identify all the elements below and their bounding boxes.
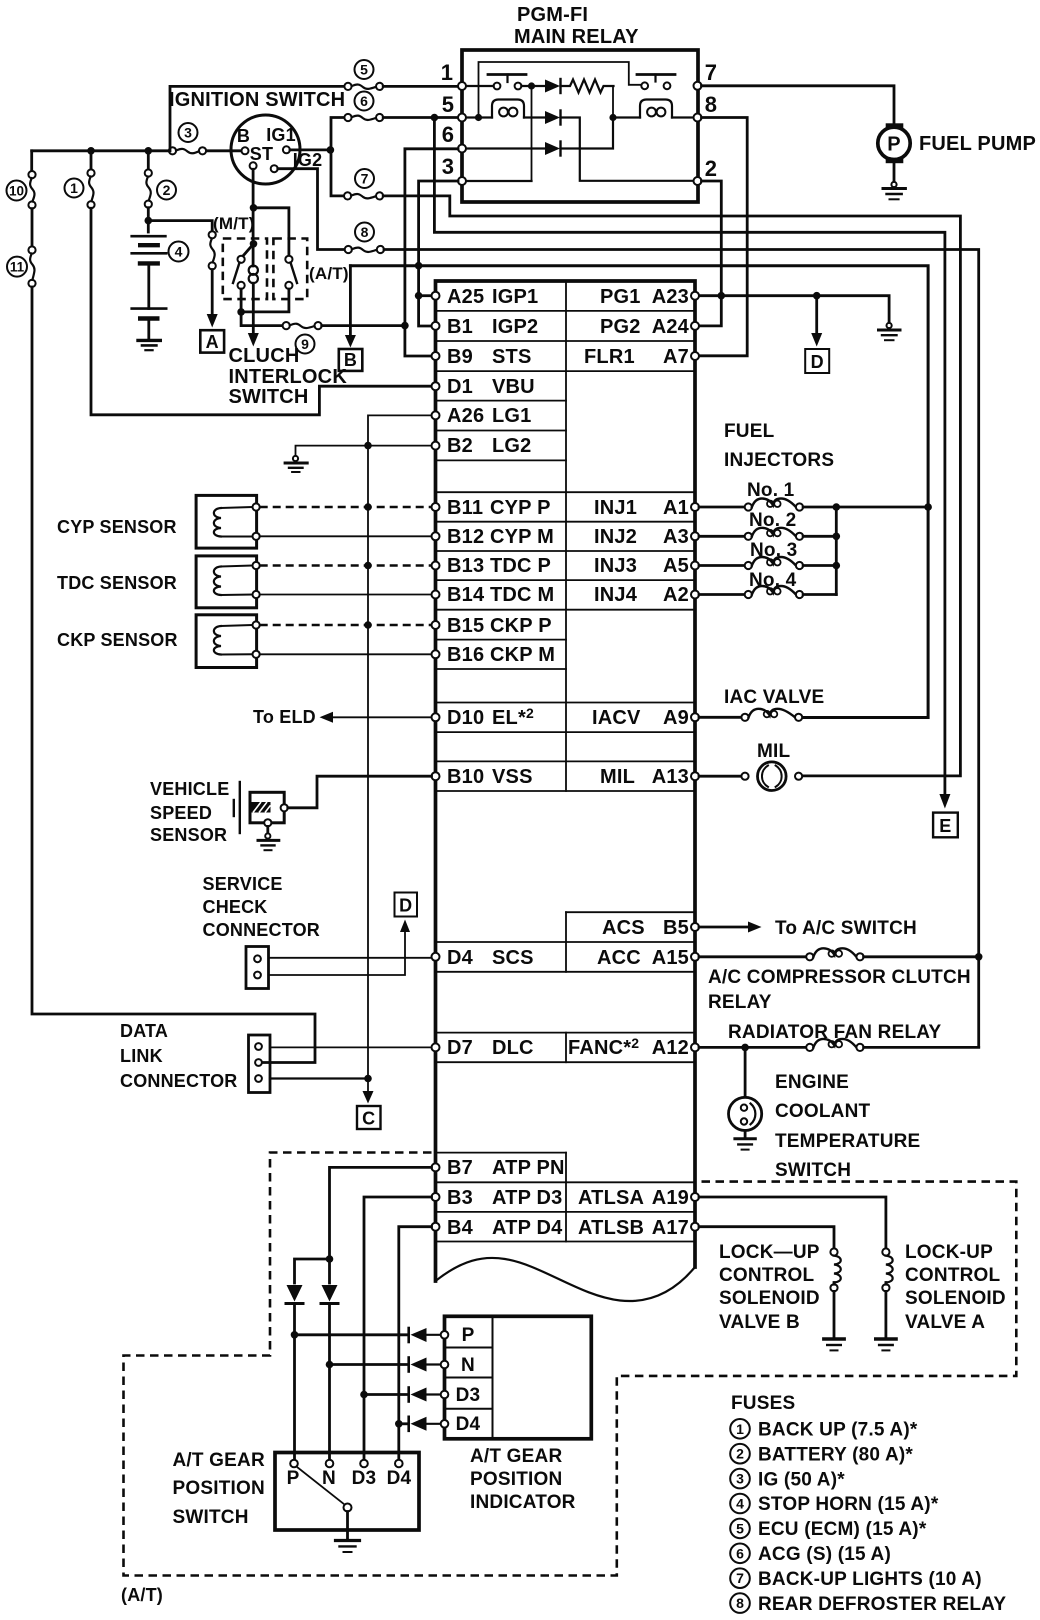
svg-text:7: 7 xyxy=(705,60,717,85)
wire LG line arrow into box C xyxy=(367,1079,369,1093)
svg-text:ATLSA: ATLSA xyxy=(578,1187,644,1209)
pin A25 terminal xyxy=(432,292,440,300)
svg-text:BACK UP (7.5 A)*: BACK UP (7.5 A)* xyxy=(758,1420,918,1441)
svg-text:INJ2: INJ2 xyxy=(594,526,637,548)
ECU wavy break line at bottom xyxy=(436,1258,696,1301)
svg-text:A7: A7 xyxy=(663,346,689,368)
dashed A/T section boundary left xyxy=(124,1153,1017,1576)
pin A12 terminal xyxy=(691,1043,699,1051)
svg-text:6: 6 xyxy=(442,122,454,147)
wire pin7 to fuel pump xyxy=(702,86,895,124)
svg-text:8: 8 xyxy=(736,1595,744,1611)
svg-text:VEHICLE: VEHICLE xyxy=(150,779,229,799)
svg-text:LINK: LINK xyxy=(120,1046,163,1066)
svg-text:INJ4: INJ4 xyxy=(594,584,638,606)
svg-text:D3: D3 xyxy=(456,1385,481,1406)
ground solenoid B xyxy=(824,1339,844,1350)
arrow down end of ST line xyxy=(248,333,259,347)
label circled 9 xyxy=(296,335,315,354)
pin A17 terminal xyxy=(691,1223,699,1231)
wire to indicator P diode xyxy=(295,1333,408,1336)
node junction dot indicator P row xyxy=(291,1331,299,1339)
svg-text:FANC*2: FANC*2 xyxy=(568,1035,639,1059)
svg-text:A24: A24 xyxy=(652,316,690,338)
svg-text:RELAY: RELAY xyxy=(708,992,772,1013)
pin A13 terminal xyxy=(691,772,699,780)
svg-text:8: 8 xyxy=(361,224,369,240)
arrow into box B xyxy=(345,335,356,348)
SEC-RIGHT2 xyxy=(121,1153,1016,1606)
arrow into box C xyxy=(363,1091,374,1104)
label circled 3 xyxy=(179,123,198,142)
pin B1 terminal xyxy=(432,322,440,330)
wire branch to A25 xyxy=(419,294,432,297)
wire CKP P shielded (dashed) to B15 xyxy=(260,624,432,627)
svg-text:INDICATOR: INDICATOR xyxy=(470,1492,576,1513)
svg-text:B12: B12 xyxy=(447,526,484,548)
label fuse 8 legend xyxy=(730,1593,1006,1615)
svg-text:CLUCH: CLUCH xyxy=(229,345,300,367)
svg-text:ST: ST xyxy=(250,144,273,164)
wire D-marker drop with arrow xyxy=(815,296,818,334)
svg-text:P: P xyxy=(887,134,901,156)
svg-text:1: 1 xyxy=(70,180,78,196)
svg-text:CYP M: CYP M xyxy=(490,526,554,548)
svg-text:N: N xyxy=(461,1355,475,1376)
relay contact K1 xyxy=(488,75,526,90)
svg-text:D10: D10 xyxy=(447,707,484,729)
wire diode CR2 to pin2 xyxy=(561,118,694,181)
ECU ACS row top line right column xyxy=(566,911,695,913)
A/T gear position switch body xyxy=(275,1453,419,1531)
svg-text:TDC P: TDC P xyxy=(490,555,551,577)
wire TDC P shielded (dashed) to B13 xyxy=(260,564,432,567)
svg-text:A1: A1 xyxy=(663,497,689,519)
svg-text:VALVE A: VALVE A xyxy=(905,1312,985,1333)
wire coolant switch drop xyxy=(744,1047,747,1097)
switch terminal P xyxy=(290,1460,298,1468)
SEC-MIDLEFT2 xyxy=(699,421,1006,1350)
svg-text:FUEL PUMP: FUEL PUMP xyxy=(919,133,1036,155)
svg-text:ATLSB: ATLSB xyxy=(578,1217,644,1239)
svg-text:ACS: ACS xyxy=(602,917,645,939)
wire fan relay to fuse8 bus corner xyxy=(864,1046,979,1049)
node junction dot indicator N row xyxy=(326,1361,334,1369)
svg-text:(A/T): (A/T) xyxy=(309,264,349,283)
svg-text:CYP SENSOR: CYP SENSOR xyxy=(57,517,177,537)
svg-text:CONTROL: CONTROL xyxy=(719,1265,815,1286)
wire resistor to coil node xyxy=(612,86,614,118)
wire ST line below solenoid with arrow down xyxy=(252,283,255,333)
pin B7 terminal xyxy=(432,1163,440,1171)
diode CR3 xyxy=(545,142,561,156)
svg-text:P: P xyxy=(462,1325,475,1346)
box D connector label mid xyxy=(395,893,418,917)
svg-text:LOCK—UP: LOCK—UP xyxy=(719,1242,820,1263)
svg-text:INTERLOCK: INTERLOCK xyxy=(229,366,348,388)
service check connector pins xyxy=(254,955,261,962)
pin A7 terminal xyxy=(691,352,699,360)
wire IG1 to fuse 6/7 riser xyxy=(290,148,330,151)
svg-text:INJECTORS: INJECTORS xyxy=(724,450,834,471)
svg-text:3: 3 xyxy=(736,1471,744,1487)
svg-text:SERVICE: SERVICE xyxy=(203,874,283,894)
terminal ST of ignition switch xyxy=(250,162,257,169)
svg-text:VSS: VSS xyxy=(492,766,533,788)
pin B2 terminal xyxy=(432,442,440,450)
svg-text:LOCK-UP: LOCK-UP xyxy=(905,1242,993,1263)
CKP sensor pickup coil xyxy=(214,625,253,655)
svg-text:MIL: MIL xyxy=(757,741,791,762)
svg-text:To A/C SWITCH: To A/C SWITCH xyxy=(775,918,917,939)
svg-text:SCS: SCS xyxy=(492,947,534,969)
wire fuse2 to battery xyxy=(147,208,150,232)
fuse 3 (IG) symbol xyxy=(169,147,206,154)
svg-text:B10: B10 xyxy=(447,766,484,788)
svg-text:6: 6 xyxy=(736,1545,744,1561)
svg-text:B11: B11 xyxy=(447,497,483,519)
switch wiper blade xyxy=(297,1467,345,1505)
node junction dot injector bus xyxy=(924,503,932,511)
node junction dot injector3 return xyxy=(833,562,841,570)
node junction dot A25 branch xyxy=(415,292,423,300)
pin A15 terminal xyxy=(691,953,699,961)
svg-text:TEMPERATURE: TEMPERATURE xyxy=(775,1131,920,1152)
svg-text:5: 5 xyxy=(360,62,368,78)
svg-text:D: D xyxy=(811,352,824,372)
svg-text:SPEED: SPEED xyxy=(150,803,212,823)
wire B7 ATP PN to P/N diodes xyxy=(330,1167,432,1283)
pin B9 terminal xyxy=(432,352,440,360)
svg-text:B15: B15 xyxy=(447,615,484,637)
label circled 6 xyxy=(355,92,374,111)
wire tap to M/T interlock contact xyxy=(243,244,254,257)
arrow to ELD xyxy=(320,712,334,723)
svg-text:EL*2: EL*2 xyxy=(492,705,534,729)
label fuse 2 legend xyxy=(730,1444,913,1466)
svg-text:D7: D7 xyxy=(447,1037,473,1059)
box B connector label xyxy=(339,349,363,371)
label fuse 1 legend xyxy=(730,1419,918,1441)
wire fuse6 to relay pin5 xyxy=(383,116,458,119)
svg-text:MIL: MIL xyxy=(600,766,635,788)
ground VSS xyxy=(258,833,279,850)
svg-text:A26: A26 xyxy=(447,405,484,427)
label circled 2 xyxy=(157,181,176,200)
arrow into box D mid xyxy=(400,920,410,933)
svg-text:B3: B3 xyxy=(447,1187,473,1209)
svg-text:To ELD: To ELD xyxy=(253,707,316,727)
svg-text:A13: A13 xyxy=(652,766,689,788)
svg-text:6: 6 xyxy=(360,93,368,109)
wire fuse5 to relay pin1 xyxy=(383,85,458,88)
svg-text:CONNECTOR: CONNECTOR xyxy=(120,1071,237,1091)
svg-text:SOLENOID: SOLENOID xyxy=(905,1288,1006,1309)
ground PG wires xyxy=(879,323,901,340)
diode CR1 xyxy=(545,79,561,93)
svg-text:(M/T): (M/T) xyxy=(213,214,255,233)
wire B4 ATP D4 down to switch xyxy=(399,1227,432,1464)
indicator terminal P xyxy=(441,1331,449,1339)
injector No.3 xyxy=(699,557,836,569)
svg-text:CKP SENSOR: CKP SENSOR xyxy=(57,630,178,650)
CYP sensor terminals xyxy=(253,503,260,510)
svg-text:7: 7 xyxy=(361,171,369,187)
box A connector label xyxy=(200,330,224,352)
lock-up control solenoid valve B coil xyxy=(830,1248,840,1337)
svg-text:ACC: ACC xyxy=(597,947,641,969)
svg-text:No. 1: No. 1 xyxy=(747,480,795,501)
TDC sensor pickup coil xyxy=(214,566,253,596)
svg-text:B1: B1 xyxy=(447,316,473,338)
relay pin8 internal wire xyxy=(613,116,698,118)
svg-text:IGP1: IGP1 xyxy=(492,286,538,308)
relay pin5 internal wire xyxy=(462,116,545,118)
terminal IG2 of ignition switch xyxy=(271,165,278,172)
svg-text:ATP D4: ATP D4 xyxy=(492,1217,563,1239)
svg-text:VALVE B: VALVE B xyxy=(719,1312,800,1333)
relay internal wire pin1 to pin3 xyxy=(531,86,533,181)
node junction dot P branch xyxy=(326,1255,334,1263)
svg-text:INJ3: INJ3 xyxy=(594,555,637,577)
wire IG2 to fuse8 xyxy=(278,169,345,250)
node junction dot E-line tap on fuse6 wire xyxy=(431,114,439,122)
wire fuse8 bus to right edge down to A/C and fan relays xyxy=(384,250,979,1048)
box C connector label xyxy=(357,1106,381,1129)
wire DLC pin3 to LG line xyxy=(270,1077,368,1079)
service check connector body xyxy=(246,947,269,989)
wire CYP M to B12 xyxy=(260,535,432,537)
svg-text:B16: B16 xyxy=(447,644,484,666)
switch wiper contact xyxy=(344,1504,352,1512)
svg-text:2: 2 xyxy=(163,182,171,198)
TDC sensor body box xyxy=(196,556,257,608)
fuse 11 symbol xyxy=(28,209,35,287)
node junction dot LG on TDC P xyxy=(364,562,372,570)
switch terminal D3 xyxy=(360,1460,368,1468)
node junction dot fuse2 tap xyxy=(145,147,153,155)
svg-text:D4: D4 xyxy=(387,1468,412,1489)
wire B-marker drop from injector bus xyxy=(349,266,352,338)
svg-text:CKP P: CKP P xyxy=(490,615,552,637)
wire injector common return riser xyxy=(835,507,838,595)
wire fuse3 to ignition B xyxy=(207,149,242,152)
indicator terminal D3 xyxy=(441,1391,449,1399)
svg-text:LG2: LG2 xyxy=(492,435,532,457)
vehicle speed sensor body xyxy=(234,782,284,833)
relay pin 5 terminal xyxy=(458,114,466,122)
svg-text:SWITCH: SWITCH xyxy=(173,1507,249,1528)
svg-text:ATP D3: ATP D3 xyxy=(492,1187,562,1209)
CKP sensor body box xyxy=(196,615,257,668)
svg-text:SWITCH: SWITCH xyxy=(775,1160,851,1181)
wire FANC A12 to radiator fan relay xyxy=(699,1046,806,1049)
wire P branch xyxy=(295,1259,330,1283)
TDC sensor terminals xyxy=(253,562,260,569)
svg-text:SWITCH: SWITCH xyxy=(229,386,309,408)
svg-text:BACK-UP LIGHTS (10 A): BACK-UP LIGHTS (10 A) xyxy=(758,1569,982,1590)
wire fuse1 down to D1 VBU xyxy=(91,208,432,414)
arrow into box D xyxy=(811,333,822,347)
svg-text:A2: A2 xyxy=(663,584,689,606)
node junction dot indicator D4 row xyxy=(395,1420,403,1428)
svg-text:STOP HORN (15 A)*: STOP HORN (15 A)* xyxy=(758,1494,939,1515)
svg-text:A17: A17 xyxy=(652,1217,689,1239)
wire DLC pin1 to D7 xyxy=(270,1046,432,1048)
wire fuel pump to ground xyxy=(893,163,896,183)
svg-text:9: 9 xyxy=(301,336,309,352)
pin B15 terminal xyxy=(432,621,440,629)
wire battery to M/T clutch switch branch xyxy=(148,221,212,232)
ECU (ECM) body outline xyxy=(436,281,696,1281)
svg-text:LG1: LG1 xyxy=(492,405,532,427)
node junction dot fuse8 bus at ACC xyxy=(975,953,983,961)
svg-text:CHECK: CHECK xyxy=(203,897,268,917)
svg-text:D4: D4 xyxy=(456,1414,481,1435)
wire service connector to D-marker xyxy=(269,931,406,975)
fuse 5 (ECU) symbol xyxy=(344,83,383,90)
pin B14 terminal xyxy=(432,591,440,599)
ECU row separator lines left column only xyxy=(436,401,567,1153)
wire CKP M to B16 xyxy=(260,653,432,655)
fuse 2 (BATTERY) symbol xyxy=(145,151,152,208)
svg-text:3: 3 xyxy=(442,154,454,179)
svg-text:CYP P: CYP P xyxy=(490,497,551,519)
svg-text:PG2: PG2 xyxy=(600,316,641,338)
wire fuse9 to STS riser xyxy=(322,324,405,327)
pin B4 terminal xyxy=(432,1223,440,1231)
svg-text:D3: D3 xyxy=(352,1468,377,1489)
pin B5 terminal xyxy=(691,923,699,931)
diode P line xyxy=(286,1285,303,1464)
svg-text:A23: A23 xyxy=(652,286,689,308)
label circled 11 xyxy=(7,257,27,277)
wire diode CR3 to coil node xyxy=(561,118,614,149)
data link connector body xyxy=(249,1035,271,1093)
wire pin8 to FLR1 A7 xyxy=(699,118,747,356)
relay pin 1 terminal xyxy=(458,82,466,90)
injector No.1 xyxy=(699,499,928,511)
switch terminal N xyxy=(326,1460,334,1468)
SEC-RELAY2 xyxy=(432,281,700,1301)
dashed box M/T around interlock contact xyxy=(223,239,267,300)
indicator terminal D4 xyxy=(441,1420,449,1428)
fuse 1 (BACK UP) symbol xyxy=(87,151,94,208)
ground fuel pump xyxy=(883,182,905,199)
svg-text:B9: B9 xyxy=(447,346,473,368)
svg-text:B13: B13 xyxy=(447,555,484,577)
label circled 10 xyxy=(7,181,27,201)
pin A24 terminal xyxy=(691,322,699,330)
wire PG1 A23 ground run xyxy=(699,296,889,324)
svg-text:A/T GEAR: A/T GEAR xyxy=(470,1446,562,1467)
node junction dot injector2 return xyxy=(833,533,841,541)
wire ST line down through interlock solenoid xyxy=(252,169,255,266)
wire to indicator D3 diode xyxy=(364,1393,408,1396)
svg-text:B5: B5 xyxy=(663,917,689,939)
svg-text:PGM-FI: PGM-FI xyxy=(517,4,588,26)
pin A5 terminal xyxy=(691,562,699,570)
pin A26 terminal xyxy=(432,411,440,419)
wire coolant switch to ground xyxy=(744,1131,747,1138)
indicator internal divider xyxy=(492,1316,494,1439)
node junction dot relay pin1 xyxy=(528,82,535,89)
svg-text:IACV: IACV xyxy=(592,707,641,729)
svg-text:E: E xyxy=(939,816,951,836)
relay pin 6 terminal xyxy=(458,145,466,153)
relay pin 3 terminal xyxy=(458,177,466,185)
diode indicator P xyxy=(409,1328,441,1342)
svg-text:B: B xyxy=(237,126,250,146)
relay contact K2 xyxy=(637,75,675,90)
MIL lamp xyxy=(699,762,802,791)
svg-text:2: 2 xyxy=(736,1446,744,1462)
svg-text:A12: A12 xyxy=(652,1037,689,1059)
ground coolant switch xyxy=(735,1139,755,1150)
label circled 8 xyxy=(355,223,374,242)
wire main battery feed line xyxy=(32,149,169,152)
wire ST branch to A/T contact xyxy=(254,208,289,256)
svg-text:TDC M: TDC M xyxy=(490,584,554,606)
wire wiper to ground xyxy=(346,1512,349,1540)
data link connector pins xyxy=(255,1043,262,1050)
wire M/T branch down to A xyxy=(211,270,214,315)
svg-text:STS: STS xyxy=(492,346,532,368)
svg-text:TDC SENSOR: TDC SENSOR xyxy=(57,573,177,593)
pin A9 terminal xyxy=(691,713,699,721)
wire D10 to ELD with arrow xyxy=(330,716,432,718)
ignition switch body circle xyxy=(231,115,300,184)
IAC valve solenoid xyxy=(699,709,802,721)
node junction dot interlock bottom xyxy=(237,308,245,316)
node junction dot D-marker tap xyxy=(813,292,821,300)
svg-text:N: N xyxy=(322,1468,336,1489)
node junction dot fuse9 to STS xyxy=(401,322,409,330)
node junction dot LG line at B2 xyxy=(364,442,372,450)
interlock solenoid coil on ST line xyxy=(249,266,258,284)
terminal B of ignition switch xyxy=(242,147,249,154)
svg-text:A: A xyxy=(206,332,219,352)
wire service connector to D4 SCS xyxy=(269,957,432,959)
wire CYP P shielded (dashed) to B11 xyxy=(260,506,432,509)
relay pin 2 terminal xyxy=(694,177,702,185)
wire pin2 to PG1 riser xyxy=(702,181,722,296)
wire fuse7 MIL feed bus to right edge and down to MIL lamp xyxy=(383,196,960,776)
relay pin1 internal wire xyxy=(462,85,545,87)
SEC-ECU2 xyxy=(57,415,432,1129)
svg-text:REAR DEFROSTER RELAY: REAR DEFROSTER RELAY xyxy=(758,1594,1006,1615)
node junction dot IG1 riser xyxy=(327,146,335,154)
wire B2 LG2 to ground xyxy=(296,446,432,457)
svg-text:1: 1 xyxy=(441,60,453,85)
diode N line xyxy=(321,1285,338,1464)
svg-text:B7: B7 xyxy=(447,1157,473,1179)
wire fuse5 branch drop xyxy=(170,86,344,150)
injector No.2 xyxy=(699,528,836,540)
svg-text:MAIN RELAY: MAIN RELAY xyxy=(514,26,639,48)
wire B3 ATP D3 down to switch xyxy=(364,1197,432,1464)
pin D1 terminal xyxy=(432,382,440,390)
wire ACC A15 to compressor clutch relay xyxy=(699,955,806,958)
fuse 9 style starter connector symbol xyxy=(283,322,322,329)
wire VSS to ground xyxy=(266,826,269,834)
svg-text:D1: D1 xyxy=(447,376,473,398)
svg-text:B4: B4 xyxy=(447,1217,474,1239)
relay coil L2 xyxy=(640,100,672,118)
svg-text:A5: A5 xyxy=(663,555,689,577)
relay coil L1 xyxy=(492,100,524,118)
svg-text:B14: B14 xyxy=(447,584,485,606)
